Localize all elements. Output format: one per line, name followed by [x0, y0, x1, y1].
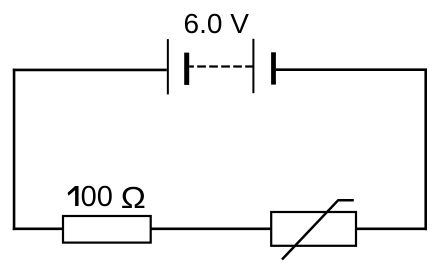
wire top-left segment [13, 69, 167, 72]
svg-text:6.0 V: 6.0 V [184, 8, 250, 39]
label digit 1 of 100 [68, 186, 79, 206]
battery cell2 short thick plate [271, 52, 276, 84]
wire top-right segment [276, 68, 427, 71]
wire right side [424, 69, 427, 231]
thermistor box [271, 212, 356, 246]
svg-text:Ω: Ω [121, 180, 146, 214]
svg-text:00: 00 [81, 181, 113, 213]
battery cell1 long plate [167, 39, 169, 94]
wire resistor to thermistor [151, 228, 272, 231]
wire bottom-left segment [13, 228, 64, 231]
battery cell1 short thick plate [184, 53, 189, 85]
wire left side [13, 69, 16, 231]
resistor R box [63, 216, 151, 243]
battery dashed link [189, 65, 253, 67]
thermistor diagonal stroke [282, 200, 354, 259]
battery cell2 long plate [252, 39, 254, 93]
wire thermistor to right [356, 228, 427, 231]
